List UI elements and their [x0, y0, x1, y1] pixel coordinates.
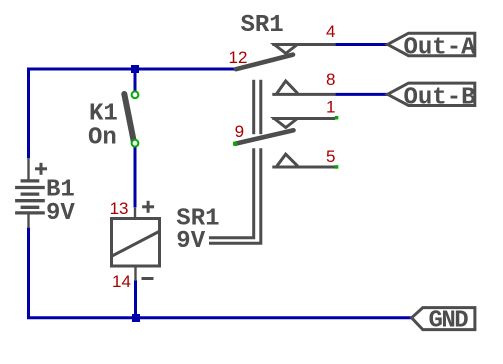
relay NC contact triangle (pin 8)	[277, 81, 298, 94]
wire junction to switch K1 top	[134, 69, 137, 91]
wire bottom horizontal to GND	[27, 316, 412, 319]
unconnected pin 9 end dot	[233, 142, 237, 146]
junction top (K1 branch)	[131, 65, 139, 73]
relay NC contact triangle (pin 5)	[277, 154, 298, 166]
svg-text:1: 1	[326, 98, 335, 117]
switch K1 lever	[124, 94, 134, 143]
coil pin 13 stub	[134, 207, 136, 218]
connector Out-B	[388, 83, 475, 105]
svg-text:4: 4	[326, 22, 335, 41]
wire switch K1 bottom to coil pin 13	[134, 147, 137, 208]
wire pin 8 to Out-B	[335, 93, 387, 96]
switch K1 bottom terminal circle	[132, 140, 139, 147]
svg-text:Out-B: Out-B	[404, 84, 476, 111]
relay contact line pin 8	[272, 93, 335, 96]
relay NO contact triangle (pin 4)	[274, 45, 297, 54]
wire top horizontal from battery branch to relay pin 12	[27, 68, 236, 71]
svg-text:On: On	[88, 125, 117, 152]
switch K1 top terminal circle	[132, 91, 139, 98]
wire left vertical upper (battery + to top wire)	[27, 68, 30, 159]
relay mechanical link bars lower segment with corner to coil	[209, 148, 261, 243]
battery B1 bottom pin stub	[27, 214, 29, 228]
svg-text:8: 8	[326, 70, 335, 89]
coil plus sign	[142, 201, 154, 213]
relay contact line pin 1	[272, 117, 335, 120]
connector GND	[412, 308, 475, 330]
svg-text:14: 14	[112, 272, 131, 291]
wire coil pin 14 to bottom wire	[134, 280, 137, 318]
relay NO contact triangle (pin 1)	[274, 119, 297, 128]
junction bottom (coil to ground wire)	[132, 314, 140, 322]
battery B1 top pin stub	[27, 158, 29, 180]
relay contact line pin 5	[272, 166, 335, 169]
relay contact line pin 4	[272, 43, 335, 46]
wire pin 4 to Out-A	[335, 43, 387, 46]
svg-text:K1: K1	[89, 101, 118, 128]
relay mechanical link bars upper segment	[254, 80, 261, 134]
svg-text:12: 12	[229, 48, 248, 67]
coil minus sign	[142, 277, 154, 280]
unconnected pin 1 end dot	[335, 116, 339, 120]
battery plus sign	[35, 163, 47, 175]
relay coil rectangle	[112, 219, 160, 267]
svg-text:13: 13	[110, 199, 129, 218]
svg-text:9: 9	[235, 122, 244, 141]
svg-text:Out-A: Out-A	[404, 35, 477, 62]
wire left vertical lower (battery - to bottom wire)	[27, 228, 30, 319]
coil pin 14 stub	[134, 266, 136, 280]
relay coil diagonal	[112, 231, 160, 256]
svg-text:9V: 9V	[46, 200, 75, 227]
svg-text:SR1: SR1	[241, 12, 284, 39]
svg-text:GND: GND	[429, 307, 469, 334]
unconnected pin 5 end dot	[335, 165, 339, 169]
svg-text:5: 5	[326, 147, 335, 166]
connector Out-A	[388, 33, 475, 56]
svg-text:9V: 9V	[176, 228, 205, 255]
relay contact arm pin 12	[236, 55, 293, 70]
relay contact arm pin 9	[235, 130, 293, 143]
battery B1 plates	[15, 181, 45, 213]
